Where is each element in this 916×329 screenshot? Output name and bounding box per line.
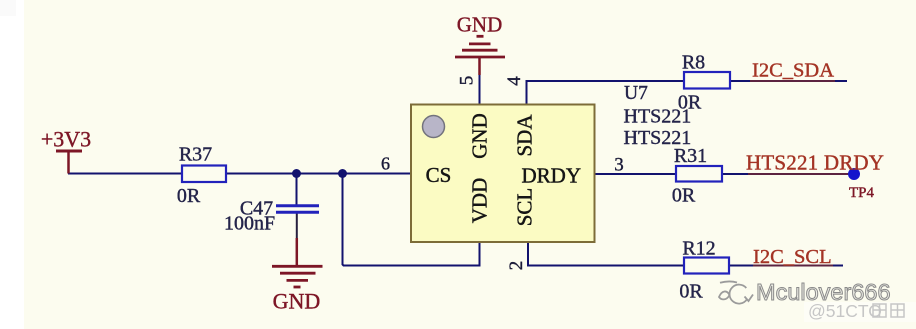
svg-text:U7: U7 [624,83,648,104]
svg-text:I2C_SCL: I2C_SCL [753,246,832,268]
svg-text:GND: GND [468,113,492,159]
svg-text:CS: CS [426,163,452,187]
svg-text:0R: 0R [672,185,696,207]
svg-text:DRDY: DRDY [522,164,582,188]
svg-text:2: 2 [506,261,527,271]
svg-text:SCL: SCL [513,188,537,227]
svg-text:SDA: SDA [513,114,537,157]
svg-text:GND: GND [457,13,503,37]
svg-text:HTS221: HTS221 [624,106,692,128]
svg-text:@51CTO: @51CTO [808,301,882,321]
svg-text:+3V3: +3V3 [41,127,91,152]
svg-text:0R: 0R [679,281,703,303]
svg-text:6: 6 [381,154,390,174]
svg-text:HTS221: HTS221 [624,127,692,149]
svg-text:R8: R8 [682,52,705,74]
svg-text:3: 3 [614,155,624,176]
svg-text:GND: GND [273,289,321,314]
svg-text:0R: 0R [177,185,201,207]
svg-text:HTS221 DRDY: HTS221 DRDY [746,151,884,175]
svg-text:TP4: TP4 [849,185,875,201]
svg-text:VDD: VDD [468,178,492,224]
svg-text:R37: R37 [179,144,212,166]
svg-text:100nF: 100nF [224,213,275,235]
svg-text:4: 4 [504,76,525,86]
svg-text:5: 5 [457,76,478,86]
svg-text:I2C_SDA: I2C_SDA [752,60,834,82]
svg-text:R12: R12 [682,238,715,260]
